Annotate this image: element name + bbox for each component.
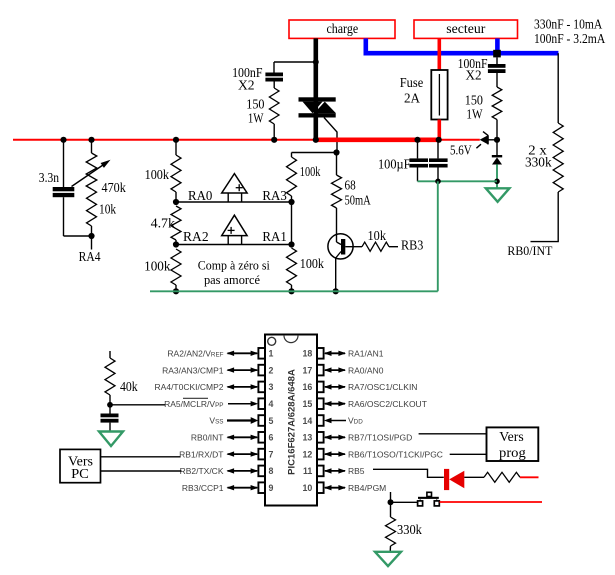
svg-text:RA4: RA4	[79, 249, 101, 264]
svg-text:330nF - 10mA: 330nF - 10mA	[534, 16, 603, 31]
svg-text:100k: 100k	[145, 167, 170, 182]
pin1 arrow	[228, 352, 258, 354]
wire RB4 down	[390, 492, 392, 502]
svg-text:2A: 2A	[404, 91, 420, 106]
node bus 100k	[173, 137, 179, 143]
resistor 100k 1	[171, 155, 181, 192]
wire blue from charge box	[363, 38, 368, 52]
wire triac gate	[324, 118, 337, 153]
svg-text:7: 7	[269, 449, 274, 459]
resistor 2x330k	[553, 123, 563, 192]
wire LED to resistor	[464, 476, 484, 478]
svg-text:5: 5	[269, 416, 274, 426]
svg-text:2: 2	[269, 365, 274, 375]
pin15 arrow	[325, 403, 345, 405]
wire 68 to transistor	[336, 208, 338, 242]
node bus charge line	[313, 137, 319, 143]
svg-text:6: 6	[269, 433, 274, 443]
wire blue from secteur box	[495, 38, 500, 52]
wire 100uF a top	[417, 140, 419, 159]
node bus 100uF a	[414, 137, 420, 143]
wire resistor to bus	[273, 124, 275, 140]
svg-text:4.7k: 4.7k	[151, 216, 176, 231]
wire 40k bottom	[109, 395, 111, 405]
transistor Q1	[328, 234, 353, 259]
svg-text:68: 68	[345, 178, 356, 193]
pin4 arrow	[228, 403, 252, 405]
wire 3.3n top	[63, 140, 65, 187]
svg-text:secteur: secteur	[446, 21, 486, 36]
pin3 arrow	[228, 386, 258, 388]
svg-text:Comp à zéro si: Comp à zéro si	[198, 258, 270, 273]
wire RA3-RA1	[291, 202, 293, 245]
svg-text:RB7/T1OSI/PGD: RB7/T1OSI/PGD	[348, 433, 412, 443]
svg-text:8: 8	[269, 466, 274, 476]
node 100uF b green	[435, 179, 441, 185]
wire 68 top	[336, 153, 338, 176]
diode to ground	[492, 155, 502, 157]
wire red bus left	[13, 139, 316, 141]
comparator U1a	[222, 174, 247, 193]
svg-text:RA3/AN3/CMP1: RA3/AN3/CMP1	[162, 365, 224, 375]
wire black right column top	[557, 53, 559, 123]
wire MCLR cap bottom	[109, 423, 111, 432]
node emitter green	[333, 288, 339, 294]
svg-text:RA7/OSC1/CLKIN: RA7/OSC1/CLKIN	[348, 382, 417, 392]
pin14 arrow	[324, 418, 332, 423]
svg-text:4: 4	[269, 399, 274, 409]
svg-text:13: 13	[303, 433, 313, 443]
svg-text:1W: 1W	[466, 107, 482, 122]
svg-text:RA1/AN1: RA1/AN1	[348, 349, 384, 359]
pin7 arrow	[228, 453, 258, 455]
wire green under 100uF	[418, 180, 498, 182]
pin10 arrow	[325, 487, 345, 489]
wire red bus thick	[314, 138, 441, 143]
svg-text:RA3: RA3	[262, 188, 287, 203]
pin8 arrow	[228, 470, 258, 472]
wire red after button	[440, 501, 542, 503]
charge box	[289, 20, 395, 38]
PIC16F627A IC body	[265, 335, 317, 506]
resistor 150 1W right	[492, 87, 502, 120]
svg-text:100nF - 3.2mA: 100nF - 3.2mA	[534, 31, 605, 46]
resistor LED series	[484, 472, 520, 482]
svg-text:5.6V: 5.6V	[450, 143, 472, 158]
svg-text:RB6/T1OSO/T1CKI/PGC: RB6/T1OSO/T1CKI/PGC	[348, 449, 443, 459]
wire base to RB3	[389, 246, 398, 248]
pin6 arrow	[228, 436, 258, 438]
wire RA4 stub	[91, 236, 93, 250]
pin11 arrow	[325, 470, 345, 472]
Vers PC box	[60, 449, 101, 482]
node RA0	[173, 199, 179, 205]
wire 4.7k bottom	[175, 240, 177, 245]
pin13 arrow	[325, 436, 345, 438]
svg-text:RA4/T0CKI/CMP2: RA4/T0CKI/CMP2	[155, 382, 224, 392]
svg-text:9: 9	[269, 483, 274, 493]
svg-text:RA5/MCLR/VPP: RA5/MCLR/VPP	[164, 399, 223, 409]
svg-text:330k: 330k	[525, 154, 552, 169]
resistor 40k	[105, 358, 115, 395]
node 100k2 green	[173, 288, 179, 294]
node RA2	[173, 241, 179, 247]
wire 100uF b top	[437, 140, 439, 159]
svg-text:1W: 1W	[248, 111, 264, 126]
svg-text:3: 3	[269, 382, 274, 392]
ground near zener	[486, 188, 510, 202]
node RA1	[288, 241, 294, 247]
node on charge line	[313, 59, 319, 65]
wire blue node to cap right	[496, 57, 498, 64]
ground bottom	[375, 552, 401, 566]
capacitor 3.3n	[53, 187, 75, 191]
wire pot top	[91, 140, 93, 153]
node gate	[333, 149, 339, 155]
wire cap to resistor	[273, 82, 275, 89]
resistor 100k 4	[287, 248, 297, 285]
node 100k4 green	[288, 288, 294, 294]
triac	[299, 97, 336, 101]
svg-text:prog: prog	[499, 446, 526, 461]
node bus 3.3n	[60, 137, 66, 143]
svg-text:100k: 100k	[300, 164, 321, 179]
wire RA0 row	[176, 201, 292, 203]
pin16 arrow	[325, 386, 345, 388]
pin5 arrow	[227, 419, 252, 421]
wire 40k stub	[109, 351, 111, 358]
svg-text:RB3: RB3	[401, 238, 424, 253]
wire 100k4 bottom	[291, 285, 293, 291]
wire 100k3 top	[291, 153, 293, 158]
svg-text:150: 150	[465, 93, 483, 108]
node RA3	[288, 199, 294, 205]
push button	[418, 497, 439, 499]
wire 2x330k down	[557, 192, 559, 242]
wire base	[345, 246, 362, 248]
svg-text:RB5: RB5	[348, 466, 365, 476]
wire green bottom bus	[150, 290, 438, 292]
capacitor 100uF a	[409, 158, 428, 162]
zener 5.6V	[480, 135, 488, 144]
fuse 2A	[431, 70, 447, 120]
svg-text:3.3n: 3.3n	[39, 170, 59, 185]
capacitor 100nF X2 right	[488, 64, 506, 68]
svg-text:470k: 470k	[102, 180, 127, 195]
svg-text:PC: PC	[71, 467, 89, 482]
resistor 330k bottom	[386, 517, 396, 546]
capacitor 100uF b	[429, 158, 448, 162]
svg-text:Fuse: Fuse	[400, 75, 423, 90]
potentiometer 470k	[86, 153, 97, 189]
svg-text:10k: 10k	[368, 228, 387, 243]
svg-text:RA6/OSC2/CLKOUT: RA6/OSC2/CLKOUT	[348, 399, 427, 409]
resistor 10k pot	[87, 189, 97, 226]
svg-text:100µF: 100µF	[378, 157, 411, 172]
wire 330k to ground	[389, 546, 391, 552]
wire 100uF b bottom	[437, 166, 439, 182]
wire 100k1 bottom	[175, 192, 177, 202]
svg-text:RA0: RA0	[188, 188, 213, 203]
svg-text:100k: 100k	[300, 256, 324, 271]
IC notch	[284, 336, 298, 343]
svg-text:17: 17	[303, 365, 313, 375]
wire RB7 to prog	[419, 433, 487, 435]
svg-text:10: 10	[303, 483, 313, 493]
wire red bus to zener	[441, 139, 480, 141]
wire blue mains horizontal	[364, 51, 559, 56]
pin17 arrow	[325, 369, 345, 371]
wire MCLR cap top	[109, 405, 111, 414]
wire 100k1 top	[175, 140, 177, 155]
wire green diode to ground	[496, 164, 498, 188]
wire 100uF a bottom	[417, 166, 419, 182]
pin12 arrow	[325, 453, 345, 455]
wire MCLR to pin4	[110, 404, 165, 406]
wire 100k3 bottom	[291, 196, 293, 202]
svg-text:18: 18	[303, 349, 313, 359]
wire RB5 net	[373, 469, 444, 477]
svg-text:1: 1	[269, 349, 274, 359]
wire 100k2 bottom	[175, 285, 177, 291]
wire gate row	[292, 152, 338, 154]
svg-text:RB2/TX/CK: RB2/TX/CK	[180, 466, 224, 476]
svg-text:10k: 10k	[99, 202, 116, 217]
svg-text:40k: 40k	[120, 379, 138, 394]
wire RB4 to 330k	[390, 502, 392, 517]
wire PC to RB1	[101, 456, 181, 458]
ground MCLR	[99, 432, 123, 447]
svg-text:X2: X2	[238, 78, 255, 93]
wire green right vertical	[437, 181, 439, 291]
node diode-ground	[494, 179, 500, 185]
wire thick black charge line	[313, 38, 318, 139]
junction blue node	[493, 50, 501, 58]
wire to 100nF X2 left	[274, 61, 316, 63]
wire red after resistor	[520, 476, 539, 478]
resistor 100k 3	[287, 157, 297, 196]
wire 10k to node	[91, 226, 93, 236]
svg-text:RB4/PGM: RB4/PGM	[348, 483, 386, 493]
resistor 4.7k	[171, 206, 181, 240]
svg-text:pas amorcé: pas amorcé	[204, 272, 260, 287]
svg-text:RB3/CCP1: RB3/CCP1	[182, 483, 224, 493]
node bus 150L	[271, 137, 277, 143]
svg-text:150: 150	[246, 97, 264, 112]
capacitor MCLR	[101, 414, 119, 418]
pin2 arrow	[228, 369, 258, 371]
secteur box	[414, 20, 518, 38]
node bus pot	[88, 137, 94, 143]
svg-text:RA0/AN0: RA0/AN0	[348, 365, 384, 375]
svg-text:Vers: Vers	[499, 430, 523, 445]
svg-text:100k: 100k	[144, 259, 171, 274]
svg-text:330k: 330k	[397, 522, 422, 537]
wire cap to 150 right	[496, 73, 498, 87]
wire 3.3n bottom	[63, 197, 65, 236]
svg-text:X2: X2	[465, 68, 481, 83]
resistor 68 50mA	[332, 175, 342, 208]
node RA4	[88, 233, 94, 239]
capacitor 100nF X2 left	[265, 73, 283, 77]
pin18 arrow	[325, 352, 345, 354]
svg-text:RB0/INT: RB0/INT	[191, 433, 224, 443]
svg-text:16: 16	[303, 382, 313, 392]
wire PC to RB2	[101, 470, 182, 472]
LED D1	[444, 469, 449, 490]
wire 150 right to node	[496, 120, 498, 156]
node MCLR	[107, 402, 113, 408]
IC right pin boxes	[317, 348, 324, 359]
svg-text:RB0/INT: RB0/INT	[507, 243, 552, 258]
node bus fuse	[436, 137, 442, 143]
svg-text:RA1: RA1	[262, 229, 286, 244]
svg-text:RA2: RA2	[183, 229, 209, 244]
wire RA2 row	[176, 244, 292, 246]
Vers prog box	[487, 427, 539, 461]
pin 1 indicator circle	[268, 337, 276, 345]
comparator U1b	[222, 215, 247, 235]
IC left pin boxes	[258, 348, 265, 359]
fuse red wire top	[437, 38, 441, 70]
svg-text:11: 11	[303, 466, 312, 476]
node bus zener	[494, 137, 500, 143]
node RB4	[388, 499, 394, 505]
wire RB6 to prog	[450, 453, 487, 455]
resistor 150 1W left	[269, 88, 279, 124]
pin9 arrow	[228, 487, 258, 489]
fuse red wire bottom	[437, 120, 441, 140]
svg-text:15: 15	[303, 399, 313, 409]
svg-text:14: 14	[303, 416, 313, 426]
svg-text:PIC16F627A/628A/648A: PIC16F627A/628A/648A	[287, 369, 298, 475]
svg-text:50mA: 50mA	[345, 193, 371, 208]
wire RB4 to button	[391, 501, 418, 503]
pot arrow	[72, 165, 104, 187]
svg-text:RB1/RX/DT: RB1/RX/DT	[179, 449, 223, 459]
svg-text:charge: charge	[326, 21, 358, 36]
svg-text:12: 12	[303, 449, 313, 459]
wire emitter	[336, 252, 341, 259]
resistor 10k base	[362, 242, 389, 251]
resistor 100k 2	[171, 249, 181, 285]
